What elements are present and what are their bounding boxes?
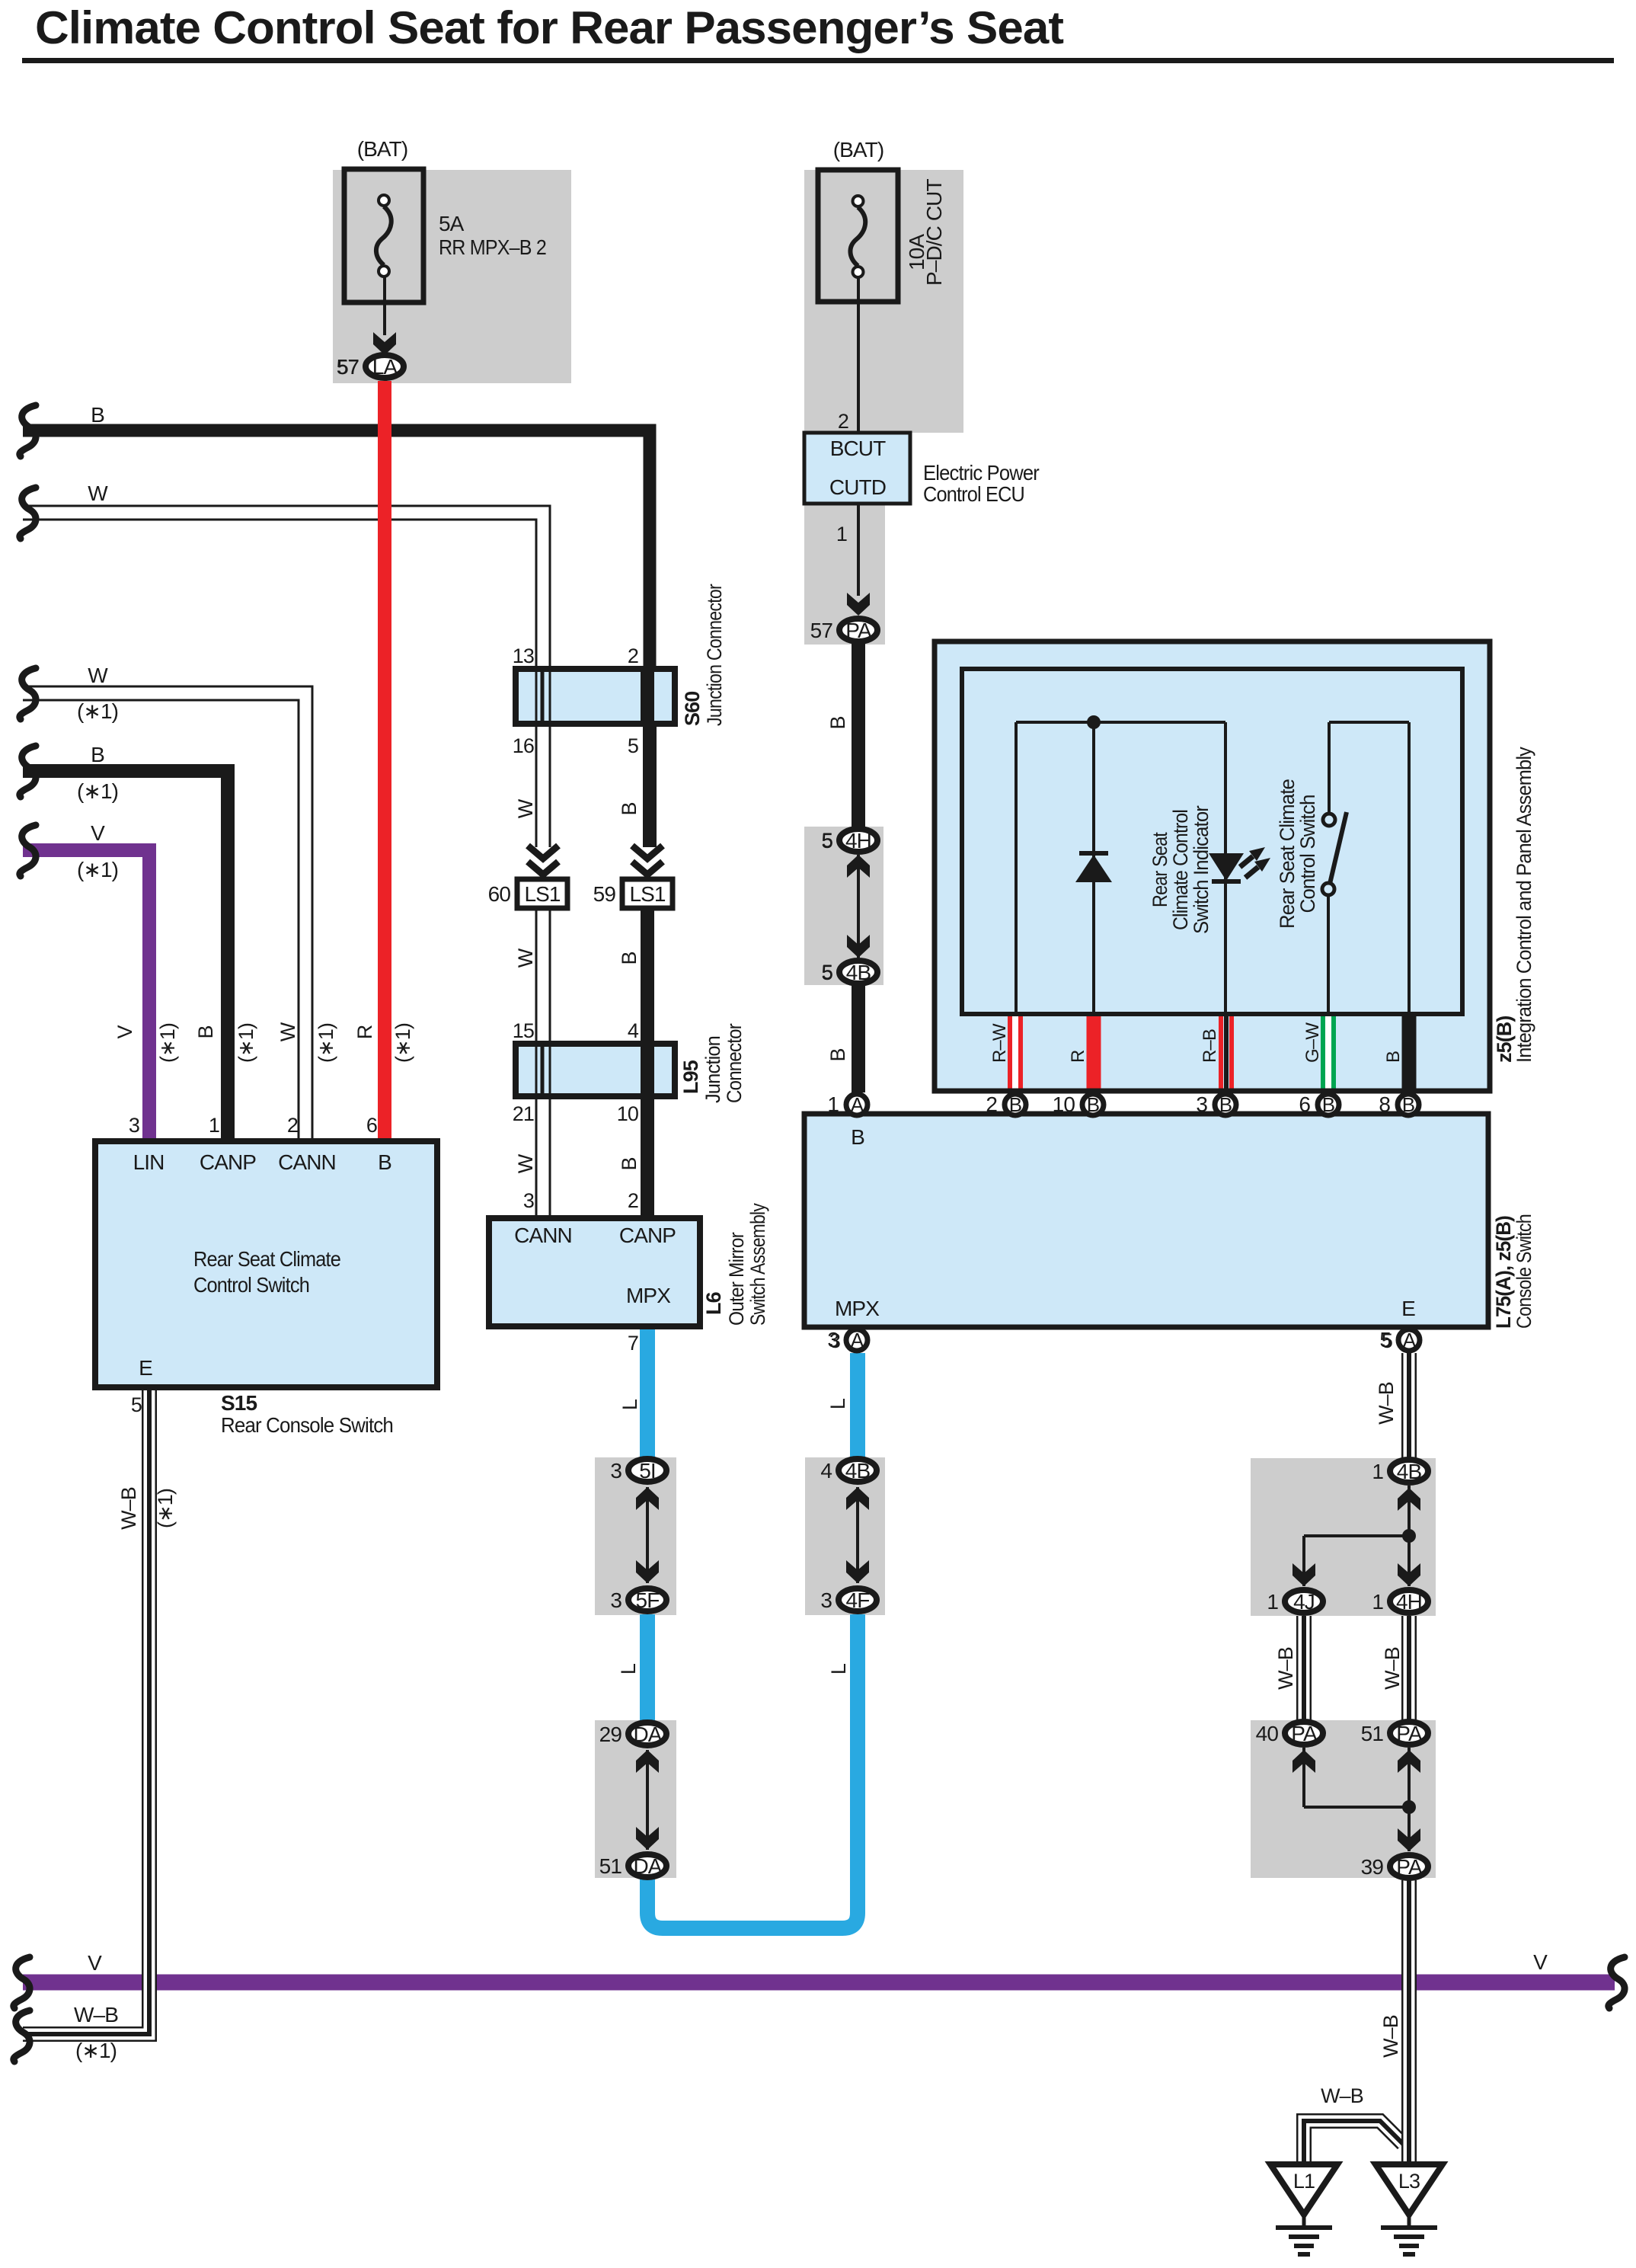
svg-text:(∗1): (∗1) bbox=[154, 1489, 177, 1528]
svg-text:W–B: W–B bbox=[1379, 2015, 1402, 2058]
svg-text:RR MPX–B 2: RR MPX–B 2 bbox=[439, 235, 546, 259]
svg-text:10: 10 bbox=[1053, 1092, 1075, 1116]
svg-text:A: A bbox=[851, 1093, 864, 1116]
svg-text:L: L bbox=[826, 1398, 849, 1409]
svg-text:Junction: Junction bbox=[701, 1036, 724, 1103]
svg-text:Junction Connector: Junction Connector bbox=[703, 584, 726, 726]
svg-text:CANP: CANP bbox=[200, 1150, 256, 1174]
svg-text:B: B bbox=[378, 1150, 391, 1174]
svg-text:Integration Control and Panel: Integration Control and Panel Assembly bbox=[1513, 747, 1535, 1063]
svg-text:W–B: W–B bbox=[1381, 1647, 1404, 1690]
svg-text:B: B bbox=[826, 716, 849, 729]
svg-text:(∗1): (∗1) bbox=[77, 779, 118, 803]
svg-text:6: 6 bbox=[1299, 1092, 1310, 1116]
svg-text:Rear Seat: Rear Seat bbox=[1149, 832, 1171, 907]
svg-text:B: B bbox=[1009, 1093, 1021, 1116]
svg-text:1: 1 bbox=[1372, 1460, 1383, 1483]
svg-text:1: 1 bbox=[1372, 1590, 1383, 1614]
svg-text:P–D/C CUT: P–D/C CUT bbox=[922, 179, 946, 286]
svg-text:W: W bbox=[88, 664, 108, 687]
svg-text:51: 51 bbox=[599, 1854, 622, 1878]
svg-text:Climate Control: Climate Control bbox=[1169, 810, 1192, 930]
svg-text:Switch Assembly: Switch Assembly bbox=[746, 1203, 769, 1326]
svg-text:W–B: W–B bbox=[117, 1487, 140, 1530]
svg-text:Rear Console Switch: Rear Console Switch bbox=[221, 1413, 393, 1437]
svg-text:(∗1): (∗1) bbox=[77, 858, 118, 881]
svg-text:CANN: CANN bbox=[278, 1150, 336, 1174]
svg-text:1: 1 bbox=[209, 1114, 219, 1137]
svg-text:2: 2 bbox=[986, 1092, 997, 1116]
svg-text:L1: L1 bbox=[1293, 2170, 1315, 2193]
svg-text:A: A bbox=[1403, 1329, 1417, 1352]
svg-text:Outer Mirror: Outer Mirror bbox=[725, 1232, 748, 1326]
svg-text:B: B bbox=[91, 743, 104, 766]
svg-text:57: 57 bbox=[337, 356, 359, 379]
svg-text:21: 21 bbox=[513, 1102, 534, 1125]
svg-text:Control Switch: Control Switch bbox=[193, 1273, 309, 1297]
svg-text:W–B: W–B bbox=[1321, 2084, 1363, 2107]
svg-text:29: 29 bbox=[599, 1723, 622, 1746]
svg-text:1: 1 bbox=[1267, 1590, 1278, 1614]
svg-text:W: W bbox=[514, 798, 537, 818]
svg-text:59: 59 bbox=[593, 882, 616, 906]
svg-text:MPX: MPX bbox=[835, 1297, 880, 1320]
svg-text:Control Switch: Control Switch bbox=[1296, 795, 1319, 913]
svg-text:5: 5 bbox=[822, 961, 832, 984]
svg-text:LIN: LIN bbox=[133, 1150, 165, 1174]
svg-text:G–W: G–W bbox=[1302, 1022, 1323, 1063]
svg-text:4B: 4B bbox=[1397, 1460, 1422, 1483]
svg-text:39: 39 bbox=[1361, 1855, 1384, 1879]
svg-text:40: 40 bbox=[1256, 1722, 1279, 1745]
svg-text:PA: PA bbox=[1396, 1855, 1423, 1879]
svg-text:3: 3 bbox=[610, 1588, 621, 1612]
svg-text:5A: 5A bbox=[439, 212, 465, 235]
svg-text:2: 2 bbox=[628, 645, 638, 667]
svg-text:B: B bbox=[91, 403, 104, 427]
svg-text:E: E bbox=[139, 1356, 152, 1380]
svg-text:R–B: R–B bbox=[1200, 1029, 1220, 1063]
svg-text:8: 8 bbox=[1379, 1092, 1390, 1116]
svg-text:(∗1): (∗1) bbox=[77, 699, 118, 723]
svg-text:60: 60 bbox=[488, 882, 511, 906]
svg-text:S15: S15 bbox=[221, 1391, 257, 1415]
svg-text:Console Switch: Console Switch bbox=[1513, 1214, 1535, 1329]
svg-text:V: V bbox=[91, 821, 105, 845]
svg-text:Climate Control Seat for Rear: Climate Control Seat for Rear Passenger’… bbox=[35, 2, 1064, 53]
svg-text:3: 3 bbox=[820, 1588, 832, 1612]
svg-text:4B: 4B bbox=[845, 1459, 871, 1483]
svg-text:(∗1): (∗1) bbox=[391, 1023, 414, 1063]
svg-text:W: W bbox=[88, 481, 108, 505]
svg-text:(BAT): (BAT) bbox=[833, 138, 884, 162]
svg-text:51: 51 bbox=[1361, 1722, 1384, 1745]
svg-text:2: 2 bbox=[287, 1114, 298, 1137]
svg-text:DA: DA bbox=[633, 1854, 662, 1878]
svg-text:Connector: Connector bbox=[723, 1023, 746, 1103]
svg-text:LS1: LS1 bbox=[629, 882, 665, 906]
svg-text:V: V bbox=[113, 1025, 136, 1039]
svg-text:5F: 5F bbox=[636, 1588, 660, 1612]
svg-text:R: R bbox=[1068, 1050, 1088, 1063]
svg-text:5: 5 bbox=[131, 1393, 142, 1416]
svg-text:B: B bbox=[1322, 1093, 1334, 1116]
svg-text:W: W bbox=[514, 1153, 537, 1173]
svg-text:B: B bbox=[851, 1125, 864, 1149]
svg-text:B: B bbox=[1383, 1051, 1404, 1063]
svg-text:L3: L3 bbox=[1398, 2170, 1420, 2193]
svg-text:L75(A), z5(B): L75(A), z5(B) bbox=[1492, 1216, 1515, 1329]
svg-text:6: 6 bbox=[366, 1114, 377, 1137]
svg-text:5: 5 bbox=[628, 734, 638, 757]
svg-text:B: B bbox=[618, 952, 641, 964]
svg-text:W–B: W–B bbox=[1274, 1647, 1297, 1690]
svg-text:57: 57 bbox=[810, 619, 833, 642]
svg-text:DA: DA bbox=[633, 1723, 662, 1746]
svg-text:(∗1): (∗1) bbox=[75, 2039, 117, 2062]
svg-text:R–W: R–W bbox=[989, 1023, 1010, 1063]
svg-text:W: W bbox=[514, 948, 537, 968]
svg-text:LS1: LS1 bbox=[524, 882, 560, 906]
svg-text:S60: S60 bbox=[681, 692, 704, 726]
svg-text:L: L bbox=[618, 1399, 641, 1410]
svg-text:L: L bbox=[827, 1663, 850, 1675]
svg-text:3: 3 bbox=[1196, 1092, 1207, 1116]
svg-text:3: 3 bbox=[610, 1459, 621, 1483]
svg-text:CANP: CANP bbox=[619, 1224, 676, 1247]
svg-text:B: B bbox=[618, 802, 641, 815]
svg-text:L: L bbox=[617, 1663, 640, 1675]
svg-text:4H: 4H bbox=[845, 829, 871, 852]
svg-text:B: B bbox=[1087, 1093, 1099, 1116]
svg-text:L95: L95 bbox=[679, 1060, 702, 1094]
svg-text:PA: PA bbox=[845, 619, 872, 642]
svg-text:15: 15 bbox=[513, 1019, 534, 1042]
svg-text:Rear Seat Climate: Rear Seat Climate bbox=[1276, 779, 1299, 929]
svg-text:(BAT): (BAT) bbox=[357, 137, 408, 161]
svg-text:B: B bbox=[618, 1157, 641, 1170]
svg-text:10: 10 bbox=[617, 1102, 638, 1125]
svg-text:4: 4 bbox=[820, 1459, 832, 1483]
svg-text:R: R bbox=[353, 1025, 376, 1039]
svg-text:4H: 4H bbox=[1396, 1590, 1422, 1614]
svg-text:Electric Power: Electric Power bbox=[923, 461, 1040, 485]
svg-text:4B: 4B bbox=[846, 961, 871, 984]
svg-text:4: 4 bbox=[628, 1019, 639, 1042]
svg-text:Switch Indicator: Switch Indicator bbox=[1190, 805, 1213, 934]
svg-text:B: B bbox=[826, 1048, 849, 1061]
svg-text:3: 3 bbox=[129, 1114, 139, 1137]
svg-text:B: B bbox=[1402, 1093, 1414, 1116]
svg-text:B: B bbox=[194, 1025, 217, 1038]
svg-text:MPX: MPX bbox=[626, 1284, 671, 1307]
svg-text:4F: 4F bbox=[846, 1588, 870, 1612]
svg-text:B: B bbox=[1219, 1093, 1232, 1116]
svg-text:CUTD: CUTD bbox=[829, 475, 886, 499]
svg-text:CANN: CANN bbox=[514, 1224, 572, 1247]
svg-text:2: 2 bbox=[628, 1189, 638, 1212]
svg-text:5: 5 bbox=[1382, 1329, 1392, 1352]
svg-text:E: E bbox=[1401, 1297, 1415, 1320]
svg-text:W–B: W–B bbox=[74, 2003, 118, 2026]
svg-text:Rear Seat Climate: Rear Seat Climate bbox=[193, 1247, 340, 1271]
svg-text:(∗1): (∗1) bbox=[235, 1023, 257, 1063]
svg-text:W: W bbox=[276, 1022, 299, 1041]
svg-text:3: 3 bbox=[829, 1329, 840, 1352]
svg-text:7: 7 bbox=[628, 1332, 638, 1355]
svg-text:PA: PA bbox=[1291, 1722, 1318, 1745]
svg-text:5: 5 bbox=[822, 829, 832, 852]
svg-text:5I: 5I bbox=[639, 1459, 656, 1483]
svg-text:3: 3 bbox=[523, 1189, 534, 1212]
svg-text:Control ECU: Control ECU bbox=[923, 482, 1024, 506]
svg-text:16: 16 bbox=[513, 734, 534, 757]
svg-text:1: 1 bbox=[827, 1092, 839, 1116]
svg-text:LA: LA bbox=[372, 355, 398, 379]
svg-text:V: V bbox=[88, 1951, 102, 1975]
svg-text:2: 2 bbox=[838, 410, 848, 433]
svg-text:PA: PA bbox=[1396, 1722, 1423, 1745]
svg-text:L6: L6 bbox=[702, 1291, 725, 1315]
svg-text:1: 1 bbox=[836, 523, 847, 545]
svg-text:A: A bbox=[851, 1329, 864, 1352]
svg-text:W–B: W–B bbox=[1375, 1382, 1398, 1425]
svg-text:(∗1): (∗1) bbox=[315, 1023, 337, 1063]
svg-text:(∗1): (∗1) bbox=[156, 1023, 179, 1063]
svg-text:4J: 4J bbox=[1293, 1590, 1315, 1614]
svg-text:13: 13 bbox=[513, 645, 534, 667]
svg-text:BCUT: BCUT bbox=[830, 437, 886, 460]
svg-text:V: V bbox=[1533, 1950, 1548, 1974]
